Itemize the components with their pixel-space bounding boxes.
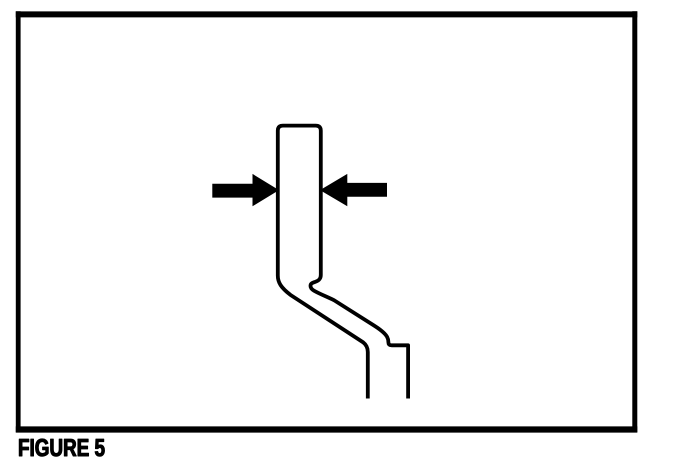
figure frame border: bottom edge bbox=[16, 426, 638, 432]
dimension arrow left (pointing right at part) bbox=[212, 174, 279, 206]
caption text FIGURE 5 bbox=[19, 439, 104, 456]
figure frame border: left edge bbox=[16, 11, 21, 432]
part outline: left/top/right contour of bent bracket bbox=[278, 126, 408, 399]
dimension arrow right (pointing left at part) bbox=[320, 174, 387, 206]
figure frame border: top edge bbox=[16, 11, 638, 17]
figure frame border: right edge bbox=[632, 11, 637, 432]
